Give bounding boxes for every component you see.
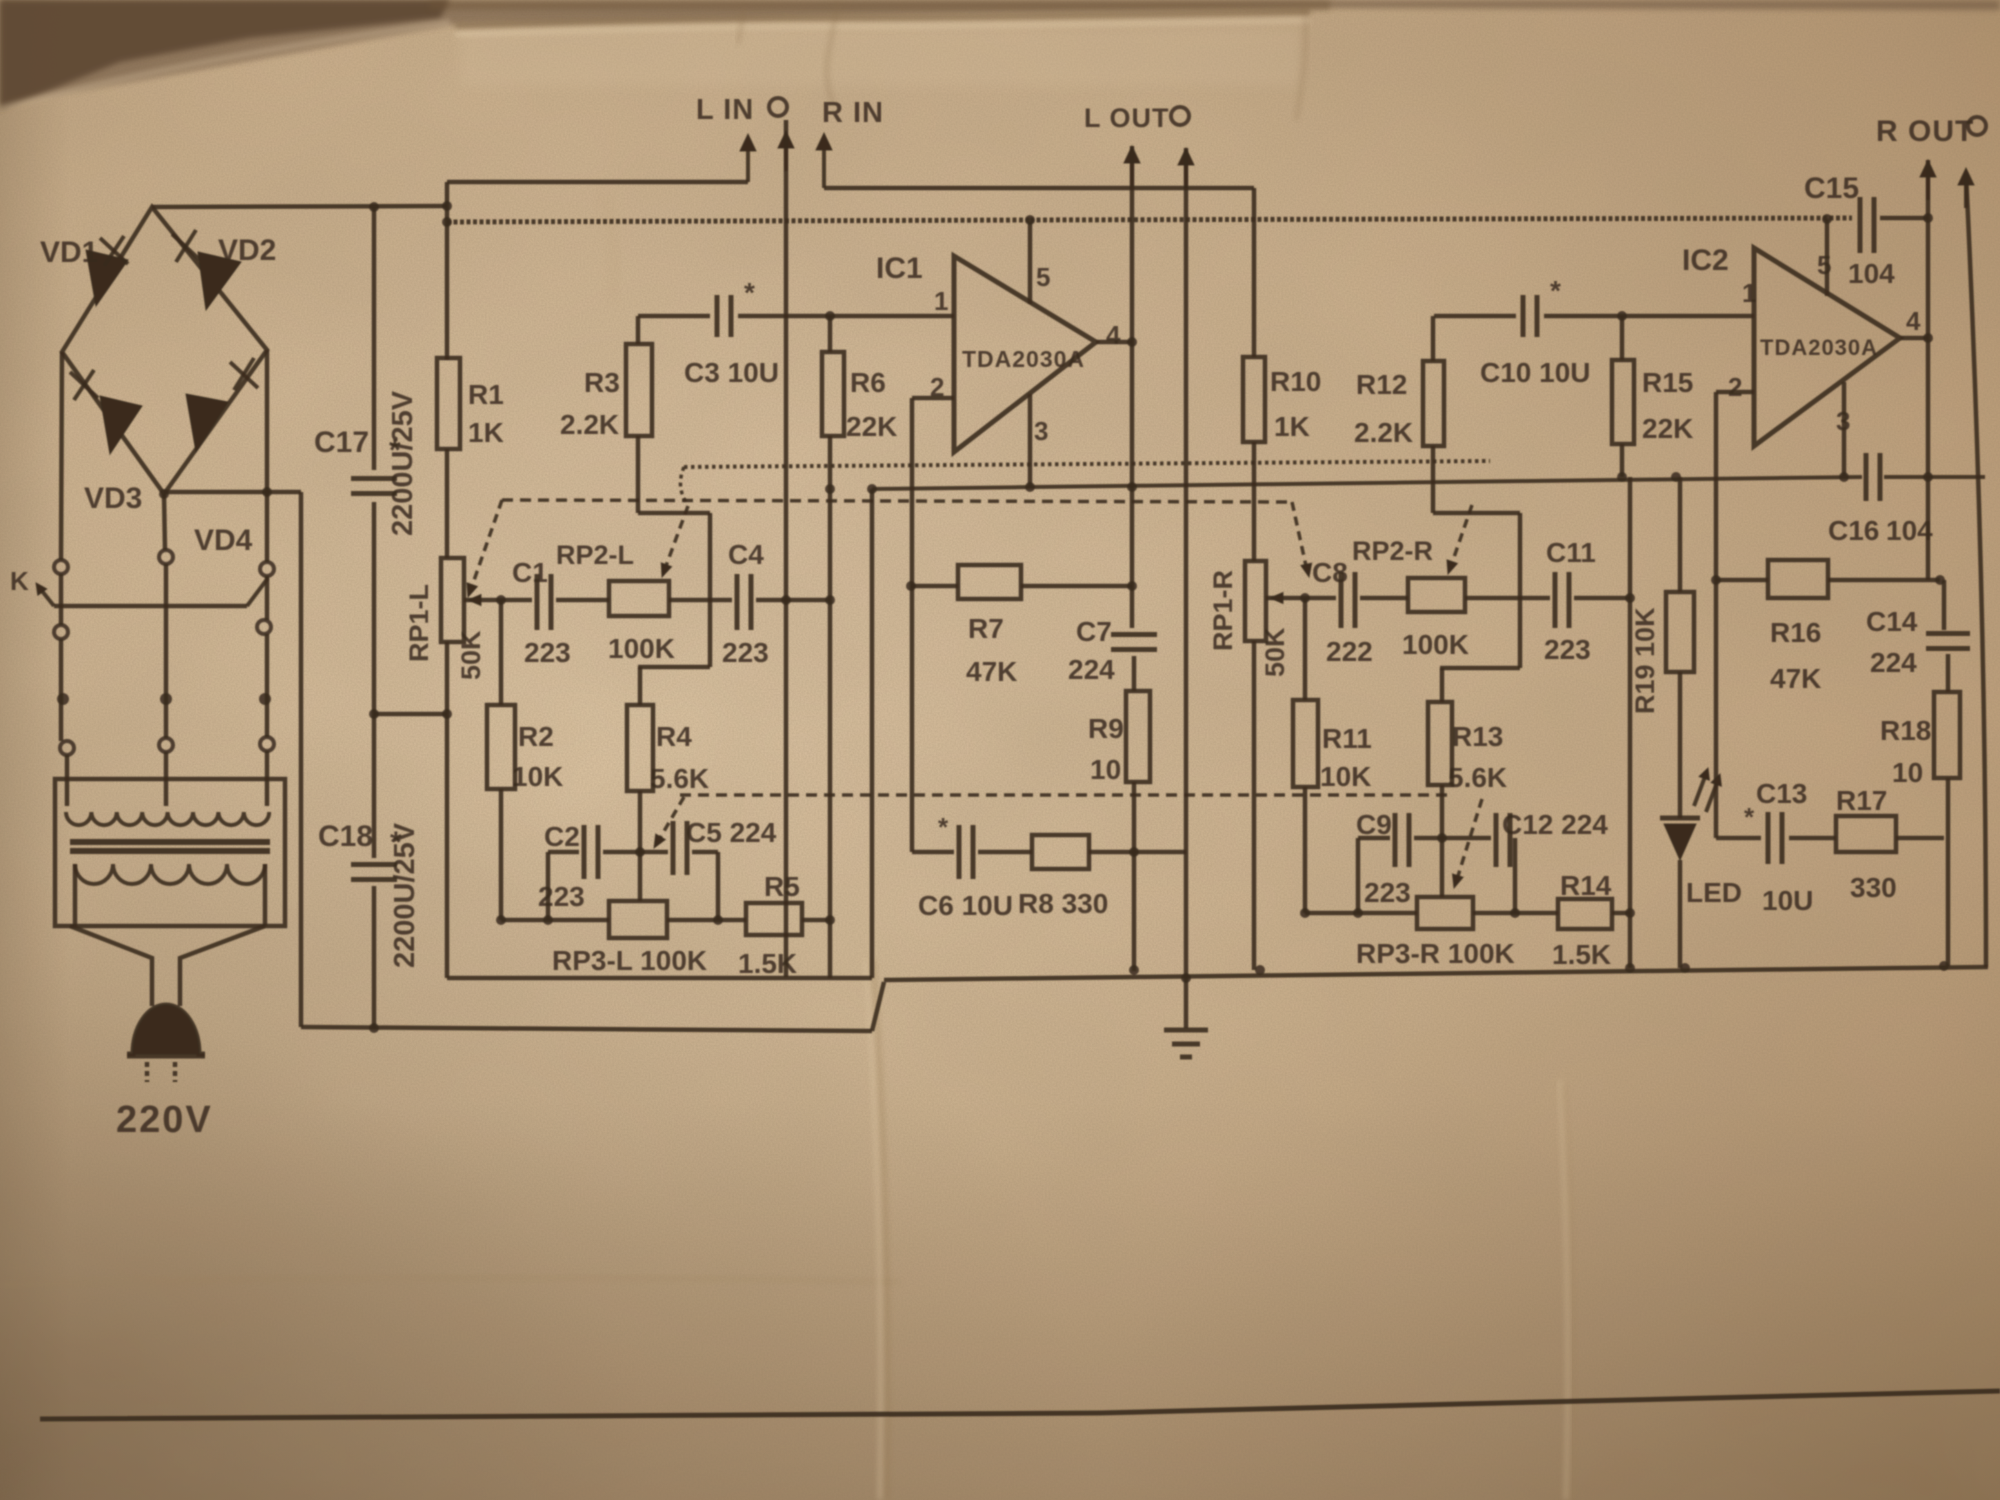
svg-text:R3: R3: [584, 367, 620, 398]
svg-text:5.6K: 5.6K: [650, 763, 709, 794]
svg-text:222: 222: [1326, 636, 1373, 667]
svg-text:104: 104: [1848, 258, 1895, 289]
svg-text:C7: C7: [1076, 616, 1112, 647]
svg-text:224: 224: [1870, 647, 1917, 678]
svg-text:50K: 50K: [456, 630, 486, 680]
svg-text:223: 223: [722, 637, 769, 668]
svg-text:R11: R11: [1322, 723, 1372, 754]
svg-text:330: 330: [1850, 872, 1897, 903]
svg-text:220V: 220V: [116, 1099, 213, 1141]
svg-text:5.6K: 5.6K: [1448, 762, 1507, 793]
svg-text:1K: 1K: [1274, 411, 1310, 442]
svg-text:C13: C13: [1756, 778, 1807, 809]
svg-text:RP1-L: RP1-L: [404, 584, 434, 662]
svg-text:223: 223: [1364, 877, 1411, 908]
svg-text:10U: 10U: [1762, 885, 1813, 916]
svg-text:VD2: VD2: [218, 234, 276, 267]
svg-text:R1: R1: [468, 379, 504, 410]
svg-text:10: 10: [1892, 757, 1923, 788]
svg-text:223: 223: [538, 881, 585, 912]
svg-text:C16: C16: [1828, 515, 1879, 546]
svg-text:C17: C17: [314, 426, 369, 459]
svg-text:C5 224: C5 224: [686, 817, 777, 848]
svg-text:TDA2030A: TDA2030A: [1760, 335, 1878, 360]
svg-text:TDA2030A: TDA2030A: [962, 346, 1085, 372]
svg-text:L OUT: L OUT: [1084, 103, 1170, 133]
svg-text:2: 2: [930, 372, 944, 402]
svg-text:2200U/25V: 2200U/25V: [389, 822, 421, 968]
svg-text:R15: R15: [1642, 367, 1693, 398]
svg-text:4: 4: [1906, 306, 1921, 336]
svg-text:IC1: IC1: [876, 252, 923, 285]
svg-text:K: K: [10, 566, 29, 596]
svg-text:VD3: VD3: [84, 482, 142, 515]
svg-text:R8 330: R8 330: [1018, 888, 1108, 919]
svg-text:223: 223: [524, 637, 571, 668]
svg-text:1.5K: 1.5K: [738, 948, 797, 979]
svg-text:R6: R6: [850, 367, 886, 398]
svg-text:C15: C15: [1804, 172, 1859, 205]
svg-text:100K: 100K: [1402, 629, 1469, 660]
svg-text:224: 224: [1068, 654, 1115, 685]
svg-text:R13: R13: [1452, 721, 1503, 752]
svg-text:5: 5: [1036, 262, 1050, 292]
svg-text:104: 104: [1886, 515, 1933, 546]
svg-text:5: 5: [1817, 250, 1831, 280]
svg-text:1K: 1K: [468, 417, 504, 448]
svg-text:22K: 22K: [846, 411, 897, 442]
svg-text:C6 10U: C6 10U: [918, 890, 1013, 921]
svg-text:2.2K: 2.2K: [1354, 417, 1413, 448]
svg-text:R9: R9: [1088, 713, 1124, 744]
svg-text:10K: 10K: [512, 761, 563, 792]
svg-text:L IN: L IN: [696, 94, 754, 126]
svg-text:223: 223: [1544, 634, 1591, 665]
svg-text:IC2: IC2: [1682, 244, 1729, 277]
svg-text:RP2-R: RP2-R: [1352, 536, 1433, 566]
svg-text:R4: R4: [656, 721, 692, 752]
svg-text:4: 4: [1106, 320, 1121, 350]
svg-text:R2: R2: [518, 721, 554, 752]
svg-text:22K: 22K: [1642, 413, 1693, 444]
svg-text:2.2K: 2.2K: [560, 409, 619, 440]
svg-text:VD4: VD4: [194, 524, 253, 557]
svg-text:R7: R7: [968, 613, 1004, 644]
svg-text:3: 3: [1836, 406, 1850, 436]
svg-text:C18: C18: [318, 820, 373, 853]
svg-text:50K: 50K: [1260, 627, 1290, 677]
svg-text:LED: LED: [1686, 877, 1742, 908]
svg-text:C8: C8: [1312, 557, 1348, 588]
svg-text:C11: C11: [1546, 537, 1596, 568]
svg-text:2: 2: [1728, 372, 1742, 402]
svg-text:R17: R17: [1836, 785, 1887, 816]
svg-text:1: 1: [1742, 278, 1756, 308]
svg-text:*: *: [938, 812, 949, 842]
svg-text:R IN: R IN: [822, 97, 884, 129]
svg-text:C1: C1: [512, 557, 548, 588]
svg-text:R16: R16: [1770, 617, 1821, 648]
svg-text:*: *: [1550, 275, 1561, 306]
svg-text:C10 10U: C10 10U: [1480, 357, 1591, 388]
svg-text:C3 10U: C3 10U: [684, 357, 779, 388]
svg-text:R19 10K: R19 10K: [1630, 607, 1660, 714]
svg-text:C2: C2: [544, 821, 580, 852]
svg-text:R18: R18: [1880, 715, 1931, 746]
svg-text:47K: 47K: [1770, 663, 1821, 694]
svg-text:1.5K: 1.5K: [1552, 939, 1611, 970]
svg-text:100K: 100K: [608, 633, 675, 664]
svg-text:RP3-R 100K: RP3-R 100K: [1356, 938, 1515, 969]
svg-text:R5: R5: [764, 871, 800, 902]
svg-text:C4: C4: [728, 539, 764, 570]
svg-text:2200U/25V: 2200U/25V: [387, 390, 419, 536]
svg-text:R14: R14: [1560, 870, 1612, 901]
svg-text:3: 3: [1034, 416, 1048, 446]
svg-text:*: *: [1744, 802, 1755, 832]
svg-text:R10: R10: [1270, 366, 1321, 397]
svg-text:RP3-L 100K: RP3-L 100K: [552, 945, 707, 976]
svg-text:R OUT: R OUT: [1876, 115, 1974, 148]
svg-text:C14: C14: [1866, 606, 1918, 637]
svg-text:*: *: [744, 277, 755, 308]
svg-text:RP2-L: RP2-L: [556, 540, 634, 570]
svg-text:10K: 10K: [1320, 761, 1371, 792]
svg-text:47K: 47K: [966, 656, 1017, 687]
svg-text:R12: R12: [1356, 369, 1407, 400]
svg-text:C12 224: C12 224: [1502, 809, 1608, 840]
svg-text:10: 10: [1090, 754, 1121, 785]
svg-text:RP1-R: RP1-R: [1208, 570, 1238, 651]
svg-text:1: 1: [934, 286, 948, 316]
svg-text:VD1: VD1: [40, 236, 98, 269]
svg-text:C9: C9: [1356, 809, 1392, 840]
